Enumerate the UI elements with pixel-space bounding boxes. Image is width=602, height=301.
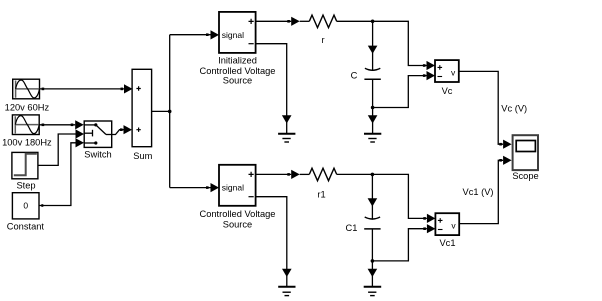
svg-text:Vc1 (V): Vc1 (V): [463, 187, 494, 197]
wire Vc output to Scope input 1: [459, 71, 512, 148]
wire branch vertical: [169, 35, 171, 188]
svg-text:Vc: Vc: [442, 86, 453, 96]
switch block: [84, 121, 112, 147]
sine wave source block 100v 180Hz: [12, 115, 39, 135]
scope block: [513, 135, 538, 170]
junction node bottom of C: [371, 106, 375, 110]
wire Constant to Switch input 3: [39, 138, 84, 207]
capacitor C1: [364, 217, 380, 261]
svg-text:Vc1: Vc1: [439, 238, 455, 248]
wire Switch output to Sum input 2: [112, 125, 132, 134]
wire capacitor C1 bottom to Vc1 minus: [372, 224, 435, 261]
capacitor C: [364, 68, 380, 107]
wire Vc1 output to Scope input 2: [459, 156, 512, 224]
step source block: [12, 152, 38, 178]
ground below capacitor C1: [364, 261, 382, 296]
wire sine1 to Sum input 1: [40, 84, 133, 93]
junction node top of C: [371, 20, 375, 24]
wire Initialized CVS minus to ground: [256, 44, 292, 134]
wire capacitor bottom to Vc minus: [373, 71, 435, 108]
wire Sum output to branch junction: [152, 110, 170, 112]
svg-text:v: v: [451, 220, 456, 230]
sine wave source block 120v 60Hz: [13, 79, 40, 99]
resistor r: [309, 15, 336, 28]
constant block value 0: [12, 193, 39, 219]
svg-text:Vc (V): Vc (V): [501, 103, 527, 113]
svg-text:0: 0: [23, 201, 28, 211]
wire junction down to capacitor C1: [368, 174, 378, 219]
wire resistor r1 to junction: [337, 173, 373, 175]
junction node branch: [168, 110, 172, 114]
wire junction to Vc plus: [373, 21, 435, 70]
svg-text:Switch: Switch: [84, 149, 111, 159]
ground below Initialized CVS: [278, 134, 295, 142]
label Initialized Controlled Voltage Source: [200, 56, 276, 86]
svg-text:Step: Step: [16, 180, 35, 190]
wire Initialized CVS plus to resistor r: [256, 17, 310, 26]
wire resistor r to junction: [337, 20, 373, 22]
svg-text:Source: Source: [223, 219, 252, 229]
wire CVS plus to resistor r1: [256, 170, 310, 179]
svg-text:120v 60Hz: 120v 60Hz: [5, 103, 50, 113]
ground below CVS: [278, 287, 295, 296]
svg-text:Controlled Voltage: Controlled Voltage: [200, 209, 276, 219]
svg-text:r1: r1: [317, 190, 325, 200]
svg-text:Sum: Sum: [133, 151, 152, 161]
svg-text:Constant: Constant: [7, 222, 45, 232]
junction node bottom of C1: [371, 259, 375, 263]
wire junction to Vc1 plus: [372, 174, 435, 223]
svg-text:Scope: Scope: [512, 171, 538, 181]
junction node top of C1: [371, 173, 375, 177]
wire Step to Switch input 2: [38, 129, 84, 165]
sum block: [132, 69, 152, 146]
Controlled Voltage Source block U2: [219, 165, 256, 206]
svg-text:Source: Source: [223, 76, 252, 86]
Initialized Controlled Voltage Source block U1: [219, 12, 256, 53]
svg-text:signal: signal: [222, 30, 244, 40]
voltage measurement block Vc1: [435, 213, 459, 235]
svg-text:100v 180Hz: 100v 180Hz: [2, 138, 52, 148]
resistor r1: [309, 168, 336, 181]
label Controlled Voltage Source: [200, 209, 276, 229]
svg-text:Controlled Voltage: Controlled Voltage: [200, 66, 276, 76]
voltage measurement block Vc: [435, 60, 459, 82]
wire junction down to capacitor C: [368, 21, 378, 71]
wire branch to CVS signal input: [170, 183, 219, 192]
svg-text:signal: signal: [222, 183, 244, 193]
svg-text:C1: C1: [346, 223, 358, 233]
wire sine2 to Switch input 1: [39, 120, 83, 129]
wire branch to Initialized CVS signal input: [170, 30, 219, 39]
svg-text:r: r: [321, 35, 324, 45]
ground below capacitor C: [364, 108, 381, 143]
svg-text:Initialized: Initialized: [218, 56, 257, 66]
wire segment nubs: [42, 20, 502, 230]
svg-text:C: C: [351, 70, 358, 80]
wire CVS minus to ground: [256, 197, 292, 287]
